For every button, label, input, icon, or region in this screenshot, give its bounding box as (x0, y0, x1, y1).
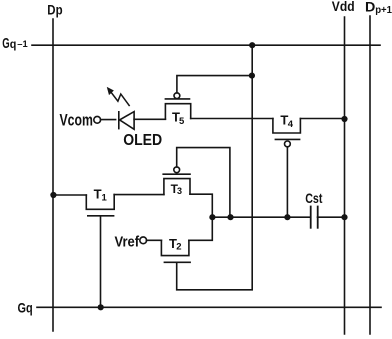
wire Cst to Vdd (318, 216, 345, 218)
transistor T5 (165, 93, 190, 119)
svg-text:T: T (94, 186, 102, 201)
junction T4 drain / Vdd (341, 116, 347, 122)
transistor T1 (86, 195, 114, 216)
svg-text:Dp: Dp (47, 1, 62, 17)
capacitor Cst (311, 207, 318, 228)
transistor T4 (273, 119, 301, 147)
svg-text:4: 4 (288, 119, 294, 130)
net Gq-1 scan line (32, 44, 380, 46)
svg-text:D: D (365, 0, 376, 15)
net Gq scan line (37, 306, 381, 308)
svg-text:Vref: Vref (115, 234, 140, 250)
wire T5 drain to T4 source (191, 118, 273, 120)
wire T4 gate to node A (286, 147, 288, 217)
svg-text:3: 3 (177, 186, 182, 196)
wire OLED to T5 source (134, 118, 165, 120)
wire T5 gate to vertical (177, 76, 252, 93)
net Vdd power line (344, 17, 346, 334)
svg-text:Cst: Cst (305, 190, 322, 206)
wire T1 gate to Gq (100, 216, 102, 307)
net Dp data line (52, 19, 54, 331)
svg-text:G: G (2, 36, 9, 52)
wire T4 drain to Vdd (300, 118, 344, 120)
wire Vref terminal to T2 source (146, 239, 161, 241)
svg-text:2: 2 (176, 242, 181, 253)
junction T5 gate tee (249, 73, 255, 79)
light emission arrow (107, 88, 129, 106)
diode OLED (119, 112, 134, 130)
terminal Vref (140, 237, 147, 244)
wire T1 drain to T3 source (114, 194, 164, 196)
junction Gq / T1 gate (98, 304, 104, 310)
svg-text:p+1: p+1 (375, 4, 392, 16)
junction Cst / Vdd (341, 214, 347, 220)
junction Dp / T1 (50, 192, 56, 198)
wire Gq-1 to T2/T5 gates vertical (177, 45, 253, 290)
net Dp+1 data line (369, 16, 371, 334)
transistor T2 (161, 240, 190, 262)
wire Vcom terminal to OLED (101, 119, 116, 121)
wire node A horizontal to Cst (212, 216, 310, 218)
svg-text:OLED: OLED (123, 132, 162, 149)
svg-text:1: 1 (102, 193, 108, 204)
wire T3 gate loop to node A (177, 148, 230, 218)
junction Gq-1 / gate vertical (249, 42, 255, 48)
junction node A / T4 gate (284, 214, 290, 220)
junction node A / T3 drain (209, 214, 215, 220)
wire T3 drain down to node A (189, 194, 212, 240)
wire Dp to T1 source (53, 194, 86, 196)
svg-text:–1: –1 (17, 39, 28, 50)
junction node A / T3 gate loop (227, 214, 233, 220)
svg-text:5: 5 (179, 116, 185, 127)
terminal Vcom (94, 116, 101, 123)
transistor T3 (163, 167, 190, 194)
svg-text:Vdd: Vdd (332, 0, 355, 14)
svg-text:q: q (10, 37, 17, 51)
svg-text:Gq: Gq (18, 300, 33, 316)
svg-text:Vcom: Vcom (60, 112, 93, 130)
